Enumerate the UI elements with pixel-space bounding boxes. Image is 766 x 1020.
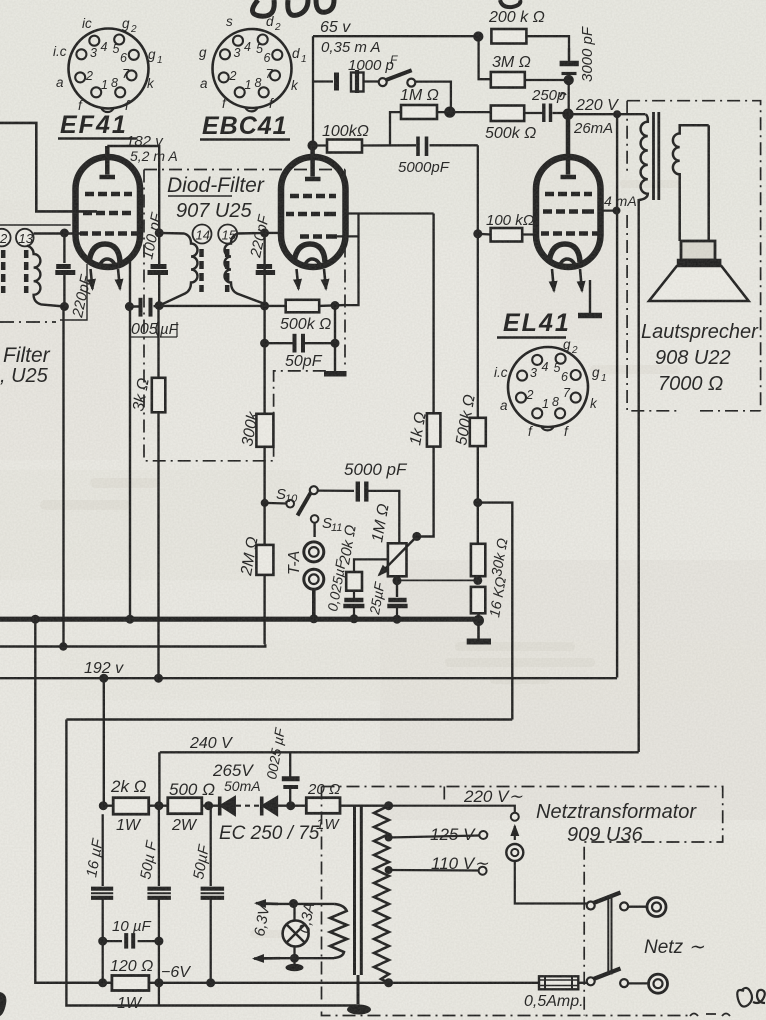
switch S arm — [386, 70, 412, 80]
chassis bus — [0, 617, 480, 622]
node 50pF right — [331, 339, 340, 348]
resistor 300k — [256, 414, 273, 447]
tube EF41 grid g3 dashes — [80, 231, 137, 236]
node 10uF right — [154, 937, 163, 946]
tube EL41 envelope — [536, 114, 601, 291]
capacitor 5000pF (coupling top) — [418, 137, 427, 157]
capacitor 50uF b — [201, 806, 225, 983]
wire 100k to EL41 grid — [478, 234, 537, 418]
resistor 20R — [306, 798, 340, 814]
wire 500 to diode — [202, 805, 218, 807]
wire 1M-right riser from switch — [411, 82, 451, 113]
tube EL41 grid g1 dashes — [545, 192, 592, 197]
resistor 120R — [112, 976, 149, 991]
tube EF41 anode — [100, 146, 116, 177]
wire 500k bottom to grid-line corner — [478, 503, 513, 720]
node 16k bus end — [473, 615, 484, 626]
socket EL41 key notch — [541, 426, 554, 430]
wire to Netz terminal lower — [628, 982, 648, 984]
potentiometer 1M wiper arrow — [379, 536, 417, 575]
wire EL41 g2 to HT riser — [601, 209, 618, 211]
terminal circle 13 — [16, 229, 34, 247]
tube EL41 grid g2 dashes — [543, 209, 594, 214]
socket EF41 electrode labels — [53, 16, 163, 113]
capacitor 50pF — [295, 334, 304, 353]
resistor 100k (EL41 grid stopper) — [491, 228, 523, 242]
wire grid column down to 500k — [477, 234, 479, 418]
signature mark — [737, 988, 765, 1007]
wire to Netz terminal upper — [628, 906, 647, 908]
resistor 20k — [346, 572, 362, 591]
tap 125V — [385, 834, 393, 842]
resistor 200k — [491, 29, 526, 44]
wire 200k to 3000pF corner — [526, 36, 569, 60]
socket EBC41 electrode labels — [199, 14, 307, 111]
node 25uF bus — [393, 615, 402, 624]
socket EL41 electrode labels — [494, 337, 607, 439]
tube EBC41 grid dashes — [290, 194, 336, 199]
node pot bottom — [393, 576, 402, 585]
resistor 1k — [427, 413, 441, 446]
node EBC41 anode — [309, 142, 317, 150]
node 500k right — [331, 301, 340, 310]
switch S10 arm — [310, 486, 318, 494]
tap 110V — [385, 866, 393, 874]
terminal circle 15 — [218, 225, 237, 244]
capacitor 3000pF — [560, 48, 579, 74]
node bus left2 — [126, 615, 135, 624]
speaker box dash-dot — [627, 101, 761, 411]
wire screen rail left drop — [66, 720, 360, 1006]
wire 500k node to 30k — [477, 503, 479, 544]
node 2k left — [99, 801, 108, 810]
tube EL41 grid g3 dashes — [541, 231, 598, 236]
node 500k bottom — [473, 498, 482, 507]
wire 3k column — [157, 306, 159, 678]
dashed envelope link — [236, 805, 259, 807]
title fragment glyph (cut off page heading) — [252, 0, 308, 16]
coil L13 (IF1 secondary) — [27, 246, 64, 307]
core IF can 1 dashes — [3, 250, 26, 293]
wire 3000pF node down to 220V node — [568, 80, 570, 114]
jack T (pickup) — [304, 542, 324, 562]
resistor 2M — [256, 545, 273, 575]
terminal Netz upper — [647, 898, 666, 917]
core mains transformer — [355, 806, 362, 1004]
capacitor 0,05uF — [141, 298, 151, 317]
node 10uF left — [98, 937, 107, 946]
wire B- drop from bus — [35, 619, 112, 983]
terminal 220V circle — [511, 813, 519, 821]
terminal circle 14 — [193, 225, 212, 244]
node jack bus — [309, 614, 318, 623]
capacitor 5000pF (AF coupling) — [358, 482, 367, 502]
wire 1M left drop to anode rail — [390, 112, 401, 145]
node IF1 bottom — [60, 302, 69, 311]
resistor 100k (AVC) — [327, 140, 362, 153]
coil OT secondary — [673, 125, 709, 241]
wire 3M feed from 65V node — [479, 37, 491, 80]
wire S10 to 5000pF row — [318, 491, 400, 544]
wire EBC41 diode1 to 1k column — [336, 214, 434, 306]
node 50pF left — [260, 339, 269, 348]
wire -6V rail — [35, 982, 539, 984]
speaker horn — [649, 266, 749, 301]
tube EBC41 envelope — [281, 146, 346, 290]
ground main bus — [467, 639, 491, 645]
tube EL41 anode — [561, 114, 577, 177]
selector plug — [506, 844, 523, 861]
wire diode to 20R — [277, 805, 306, 807]
wire 65V top rail — [313, 35, 478, 37]
wire AVC row y306 — [129, 305, 264, 308]
core IF can 2 dashes — [202, 249, 228, 292]
socket EF41 key notch — [101, 108, 114, 112]
capacitor 25uF (cathode) — [387, 600, 407, 618]
wire 3M right to 3000pF node — [524, 79, 569, 81]
wire 192V rail y678 — [0, 677, 617, 679]
socket EF41 pins — [75, 35, 139, 98]
wire EBC41 diode return loop — [336, 214, 359, 306]
wire 192V to 2k — [103, 678, 105, 806]
capacitor 220pF (IF1) — [55, 233, 75, 307]
switch S11 contact — [311, 515, 319, 523]
chassis blob lamp — [293, 958, 295, 964]
wire 220V rail to OT primary — [568, 113, 646, 115]
wire 20k to pot — [354, 559, 388, 572]
node AVC left — [125, 302, 134, 311]
capacitor 1000pF trimmer — [313, 70, 379, 93]
capacitor 100pF — [148, 233, 169, 306]
wire grid return y647 — [0, 644, 265, 646]
switch link bar — [608, 898, 611, 975]
node 220V — [564, 110, 573, 119]
wire 2k to 500 — [103, 805, 168, 807]
capacitor 0,025uF (tone) — [343, 591, 364, 618]
wire 50pF row — [265, 342, 335, 344]
wire EF41 anode to IF can — [107, 146, 159, 233]
chassis blob core — [347, 1005, 371, 1015]
switch S10 node — [261, 499, 269, 507]
potentiometer 1M body — [388, 543, 407, 576]
resistor 30k — [471, 544, 485, 576]
node 100pF bottom — [155, 301, 164, 310]
wire IF1 bottom drop — [62, 307, 64, 648]
wire 16k to ground — [477, 613, 480, 639]
coil OT primary — [639, 114, 648, 203]
resistor 500k (top) — [491, 106, 524, 122]
tube EF41 grid g2 dashes — [83, 211, 131, 216]
tube EF41 cathode — [89, 244, 120, 263]
wire jack A to bus — [312, 589, 316, 618]
wire 500k diode load row — [265, 304, 344, 307]
node tone cap bus — [350, 614, 359, 623]
speaker chassis bar — [677, 259, 722, 266]
switch S10 fixed contact — [265, 502, 287, 505]
node lamp top — [289, 899, 298, 908]
switch S (tone) contacts — [379, 78, 387, 86]
node primary bottom — [384, 978, 393, 987]
wire selector to switch — [515, 861, 591, 904]
diode EC250 b — [262, 797, 277, 816]
wire EL41 cathode to ground — [589, 280, 591, 313]
tap 220V wire — [389, 806, 515, 813]
node -6V b — [206, 978, 215, 987]
wire OT primary down to 240V rail — [638, 200, 640, 752]
node grid column / 100k — [473, 229, 482, 238]
tube EBC41 anode — [305, 146, 321, 180]
node HT riser top — [613, 110, 621, 118]
tube EL41 cathode — [549, 244, 580, 263]
voltage selector arrow — [514, 826, 516, 840]
resistor 500k (AF) — [470, 418, 486, 446]
wire 1k column — [418, 214, 434, 537]
socket EBC41 pins — [219, 35, 283, 98]
node IF2 secondary top — [260, 228, 269, 237]
winding primary zigzag — [374, 806, 389, 983]
wire IF1 top to EF41 grid — [34, 232, 83, 234]
IF can 1 boundary dash-dot — [0, 321, 56, 323]
wire HT riser x617 — [616, 114, 618, 677]
wire 500k AF column — [477, 446, 479, 503]
resistor 500k (diode load) — [286, 300, 320, 313]
node 65V/200k — [474, 33, 482, 41]
node -6V a — [154, 978, 163, 987]
socket EBC41 key notch — [245, 107, 258, 111]
IF can 1 shield outline — [0, 225, 87, 320]
tube EL41 cathode arrows — [552, 269, 554, 291]
wire grid column corner down — [477, 145, 479, 233]
tube EBC41 diode plate 1 — [286, 212, 336, 217]
socket EBC41 outline — [213, 29, 292, 108]
node primary top / 220V tap — [384, 801, 393, 810]
corner blob bottom-left — [0, 992, 6, 1016]
capacitor 16uF — [91, 814, 113, 941]
node 500 left — [154, 801, 163, 810]
socket EL41 pin numbers — [526, 360, 572, 411]
lamp 6.3V 0.3A — [283, 921, 309, 947]
ground EL41 cathode — [578, 313, 602, 319]
transformer boundary dash-dot — [322, 787, 723, 1016]
node 192V/3k — [154, 674, 163, 683]
wire 1M to 500k — [437, 111, 491, 113]
tube EF41 grid g1 dashes — [85, 192, 132, 197]
node reservoir — [286, 801, 295, 810]
wire AVC left drop to bus — [129, 260, 131, 619]
terminal circle 12 — [0, 229, 11, 247]
tube EBC41 cathode arrows — [297, 269, 299, 289]
wire S11 stub — [313, 523, 315, 537]
wire fuse to switch — [578, 982, 590, 984]
wire 16uF col to -6V — [102, 941, 104, 983]
wire EF41 g2 feed (from left edge) — [0, 123, 97, 211]
winding heater 6.3V zigzag — [330, 904, 347, 958]
fuse 0,5Amp — [539, 976, 578, 989]
speaker magnet — [681, 241, 715, 260]
node 3M/3000pF — [565, 76, 573, 84]
coil L15 (IF2 secondary) — [225, 233, 265, 304]
node IF2 primary top — [155, 228, 164, 237]
capacitor 250pF — [544, 104, 551, 123]
arrow heater bottom — [254, 957, 280, 960]
terminal Netz lower — [649, 974, 668, 993]
ground IF can — [324, 371, 347, 377]
node IF2 secondary bottom — [260, 301, 269, 310]
capacitor 0,025uF (RF filter) — [282, 752, 300, 805]
IF can 2 boundary dash-dot — [144, 170, 345, 461]
wire 50uF col to -6V — [158, 941, 160, 1005]
wire heater bottom — [256, 957, 334, 959]
wire 250pF to 220V node — [553, 112, 569, 114]
wire heater top — [258, 903, 334, 905]
node bus left1 — [31, 615, 40, 624]
wire screen rail y719.5 — [66, 718, 512, 720]
wire 500k to 250pF — [524, 112, 542, 114]
wire 50pF right to can ground — [334, 306, 336, 372]
tube EF41 cathode arrows — [91, 269, 93, 289]
bleed-through ghost marks — [40, 180, 680, 938]
wire 240V rail y752 — [159, 752, 638, 805]
wire pot bottom — [396, 576, 398, 597]
tube EBC41 diode plate 2 — [300, 234, 337, 239]
node 120R left — [98, 978, 107, 987]
tube EF41 envelope — [76, 146, 141, 289]
node lamp bottom — [290, 954, 299, 963]
node IF1 top — [60, 229, 69, 238]
node wiper — [412, 532, 421, 541]
resistor 3k — [152, 378, 166, 413]
coil L14 (IF2 primary) — [159, 233, 197, 306]
socket EF41 pin numbers — [85, 40, 130, 92]
switch mains upper — [587, 902, 595, 910]
diode EC250 a — [220, 797, 235, 816]
node 1M right — [445, 108, 454, 117]
wire 20R to primary top — [340, 805, 389, 807]
core OT — [654, 112, 659, 200]
socket EBC41 pin numbers — [229, 40, 274, 92]
node 192V/dropper — [99, 674, 108, 683]
wire detector column — [263, 233, 265, 644]
socket EL41 outline — [508, 347, 588, 427]
node EL41 g2 — [613, 207, 621, 215]
resistor 3M — [491, 72, 525, 88]
capacitor 220pF (IF2) — [256, 233, 275, 273]
node 16uF top (2k) — [102, 813, 104, 815]
switch mains lower — [587, 977, 595, 985]
node 500 right — [204, 801, 213, 810]
resistor 16k — [471, 587, 485, 613]
capacitor 10uF — [103, 933, 159, 949]
wire EBC41 anode riser — [312, 36, 314, 145]
wire anode rail y145 — [313, 144, 478, 146]
capacitor 50uF a — [147, 806, 171, 941]
wire pot bottom to 30k/16k junction — [397, 579, 478, 581]
wire IF2 secondary top to EBC41 grid — [265, 232, 283, 234]
arrow heater top — [256, 902, 278, 905]
socket EF41 outline — [69, 29, 149, 109]
resistor 1M — [401, 105, 437, 119]
resistor 500 — [168, 798, 202, 814]
resistor 2k — [113, 798, 149, 815]
jack A (pickup) — [304, 569, 324, 589]
node 30k/16k junction — [473, 576, 482, 585]
tube EBC41 cathode — [294, 244, 325, 263]
socket EL41 pins — [516, 354, 581, 419]
